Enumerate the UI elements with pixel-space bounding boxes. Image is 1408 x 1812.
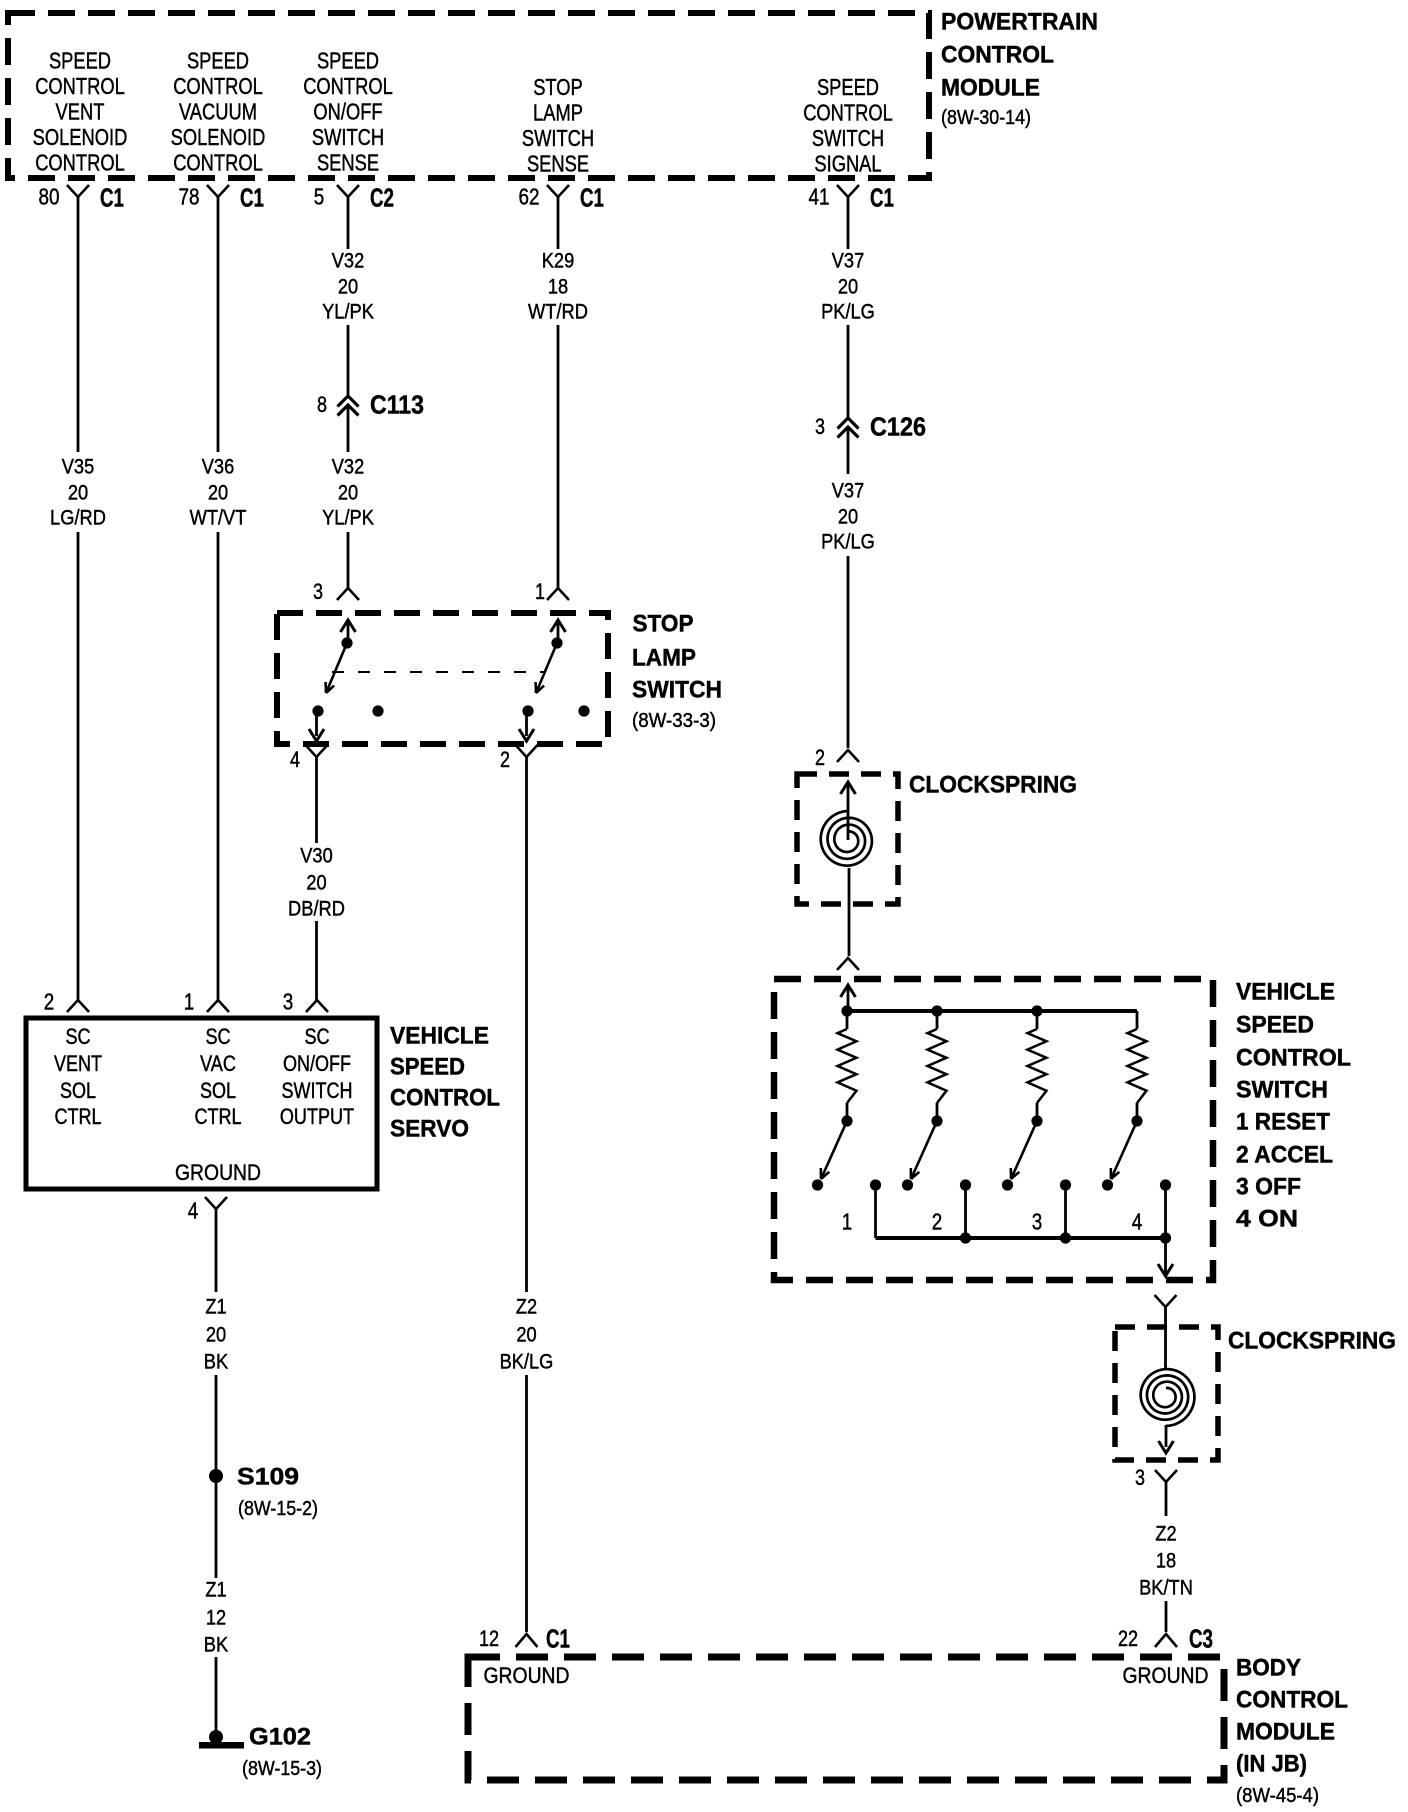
svg-text:STOP: STOP	[633, 611, 694, 638]
svg-text:SPEED: SPEED	[390, 1054, 465, 1081]
svg-text:SPEED: SPEED	[1236, 1012, 1314, 1039]
svg-text:LAMP: LAMP	[632, 645, 696, 672]
svg-text:LG/RD: LG/RD	[50, 506, 106, 530]
svg-text:(8W-33-3): (8W-33-3)	[632, 710, 716, 732]
svg-text:41: 41	[809, 183, 830, 209]
svg-text:3: 3	[1032, 1208, 1043, 1234]
svg-text:18: 18	[1156, 1549, 1176, 1573]
svg-text:GROUND: GROUND	[175, 1160, 261, 1185]
svg-text:8: 8	[317, 392, 327, 417]
svg-text:3: 3	[283, 988, 294, 1014]
svg-text:GROUND: GROUND	[484, 1663, 570, 1688]
svg-text:C1: C1	[870, 182, 894, 212]
svg-text:SWITCH: SWITCH	[812, 125, 884, 151]
svg-text:V37: V37	[832, 479, 865, 503]
svg-text:VEHICLE: VEHICLE	[390, 1023, 489, 1050]
svg-text:SC: SC	[65, 1024, 90, 1049]
svg-text:12: 12	[206, 1606, 226, 1630]
svg-text:(8W-45-4): (8W-45-4)	[1236, 1785, 1319, 1807]
svg-text:1: 1	[842, 1208, 853, 1234]
svg-text:3: 3	[1135, 1465, 1145, 1490]
svg-text:CONTROL: CONTROL	[173, 73, 263, 99]
svg-text:CONTROL: CONTROL	[1236, 1687, 1348, 1714]
svg-text:VENT: VENT	[56, 99, 105, 125]
svg-text:V36: V36	[202, 455, 235, 479]
svg-text:(IN JB): (IN JB)	[1236, 1751, 1307, 1778]
svg-text:CONTROL: CONTROL	[303, 73, 393, 99]
svg-text:ON/OFF: ON/OFF	[283, 1051, 351, 1076]
svg-text:CONTROL: CONTROL	[173, 150, 263, 176]
svg-text:78: 78	[179, 183, 200, 209]
svg-text:CONTROL: CONTROL	[803, 100, 893, 126]
svg-text:20: 20	[306, 871, 326, 895]
svg-text:4: 4	[188, 1197, 199, 1223]
svg-text:WT/RD: WT/RD	[528, 300, 588, 324]
svg-text:SENSE: SENSE	[527, 151, 589, 177]
svg-text:20: 20	[68, 481, 88, 505]
svg-text:SPEED: SPEED	[187, 48, 249, 74]
svg-text:20: 20	[338, 481, 358, 505]
svg-text:4 ON: 4 ON	[1236, 1206, 1298, 1233]
svg-text:SOLENOID: SOLENOID	[33, 124, 128, 150]
svg-text:SERVO: SERVO	[390, 1116, 469, 1143]
svg-text:POWERTRAIN: POWERTRAIN	[941, 9, 1098, 36]
svg-text:C113: C113	[370, 389, 424, 419]
svg-text:VENT: VENT	[54, 1051, 102, 1076]
svg-text:C3: C3	[1189, 1623, 1213, 1653]
svg-text:CONTROL: CONTROL	[35, 150, 125, 176]
svg-text:CONTROL: CONTROL	[941, 42, 1054, 69]
svg-text:3: 3	[815, 414, 825, 439]
svg-text:DB/RD: DB/RD	[288, 897, 345, 921]
svg-text:MODULE: MODULE	[941, 75, 1040, 102]
svg-text:VACUUM: VACUUM	[179, 99, 257, 125]
svg-text:(8W-15-2): (8W-15-2)	[238, 1498, 318, 1520]
svg-text:BK: BK	[204, 1350, 229, 1374]
svg-text:BK/TN: BK/TN	[1139, 1576, 1193, 1600]
svg-text:20: 20	[208, 481, 228, 505]
svg-text:(8W-30-14): (8W-30-14)	[941, 107, 1031, 129]
svg-text:C1: C1	[546, 1623, 570, 1653]
svg-text:2: 2	[815, 745, 825, 770]
svg-text:C1: C1	[240, 182, 264, 212]
svg-text:SWITCH: SWITCH	[522, 125, 594, 151]
svg-text:2 ACCEL: 2 ACCEL	[1236, 1142, 1333, 1169]
svg-text:Z2: Z2	[516, 1295, 537, 1319]
svg-text:C1: C1	[100, 182, 124, 212]
svg-text:20: 20	[338, 275, 358, 299]
svg-text:3 OFF: 3 OFF	[1236, 1174, 1301, 1201]
svg-text:CLOCKSPRING: CLOCKSPRING	[1228, 1328, 1396, 1355]
svg-text:SPEED: SPEED	[49, 48, 111, 74]
svg-text:GROUND: GROUND	[1123, 1663, 1209, 1688]
svg-text:BK/LG: BK/LG	[500, 1350, 554, 1374]
svg-text:2: 2	[500, 747, 510, 772]
svg-text:V35: V35	[62, 455, 95, 479]
svg-text:5: 5	[314, 183, 325, 209]
svg-text:STOP: STOP	[533, 74, 583, 100]
svg-text:PK/LG: PK/LG	[821, 300, 875, 324]
svg-text:20: 20	[838, 275, 858, 299]
svg-text:G102: G102	[249, 1724, 311, 1751]
svg-text:S109: S109	[237, 1464, 299, 1491]
svg-text:SWITCH: SWITCH	[281, 1078, 352, 1103]
svg-text:SWITCH: SWITCH	[1236, 1077, 1328, 1104]
svg-text:YL/PK: YL/PK	[322, 300, 374, 324]
svg-text:C126: C126	[870, 411, 926, 441]
svg-text:VAC: VAC	[200, 1051, 236, 1076]
svg-text:4: 4	[290, 747, 300, 772]
svg-text:CONTROL: CONTROL	[390, 1085, 500, 1112]
svg-text:C1: C1	[580, 182, 604, 212]
svg-text:CLOCKSPRING: CLOCKSPRING	[909, 772, 1077, 799]
svg-text:SC: SC	[205, 1024, 230, 1049]
svg-text:MODULE: MODULE	[1236, 1719, 1335, 1746]
svg-text:SWITCH: SWITCH	[632, 677, 722, 704]
svg-text:PK/LG: PK/LG	[821, 530, 875, 554]
svg-text:WT/VT: WT/VT	[190, 506, 247, 530]
svg-text:SENSE: SENSE	[317, 150, 379, 176]
svg-text:ON/OFF: ON/OFF	[313, 99, 382, 125]
svg-text:CTRL: CTRL	[54, 1104, 101, 1129]
svg-text:CONTROL: CONTROL	[1236, 1045, 1351, 1072]
svg-text:12: 12	[479, 1626, 499, 1651]
svg-text:(8W-15-3): (8W-15-3)	[242, 1758, 322, 1780]
svg-text:20: 20	[206, 1323, 226, 1347]
svg-text:V37: V37	[832, 249, 865, 273]
svg-text:CTRL: CTRL	[194, 1104, 241, 1129]
svg-text:4: 4	[1132, 1208, 1143, 1234]
svg-text:62: 62	[519, 183, 540, 209]
svg-text:OUTPUT: OUTPUT	[280, 1104, 354, 1129]
svg-text:LAMP: LAMP	[533, 100, 583, 126]
svg-text:20: 20	[838, 505, 858, 529]
svg-text:V30: V30	[300, 844, 333, 868]
svg-text:1 RESET: 1 RESET	[1236, 1109, 1330, 1136]
svg-text:3: 3	[313, 579, 323, 604]
svg-text:SOLENOID: SOLENOID	[171, 124, 266, 150]
svg-text:SOL: SOL	[200, 1078, 236, 1103]
svg-text:CONTROL: CONTROL	[35, 73, 125, 99]
svg-text:Z1: Z1	[205, 1295, 226, 1319]
svg-text:2: 2	[44, 988, 55, 1014]
svg-text:SPEED: SPEED	[317, 48, 379, 74]
svg-text:SPEED: SPEED	[817, 74, 879, 100]
svg-text:22: 22	[1118, 1626, 1138, 1651]
svg-text:1: 1	[535, 579, 545, 604]
svg-text:SWITCH: SWITCH	[312, 124, 384, 150]
svg-text:80: 80	[39, 183, 60, 209]
svg-text:K29: K29	[542, 249, 575, 273]
svg-text:V32: V32	[332, 249, 365, 273]
svg-text:20: 20	[516, 1323, 536, 1347]
svg-text:18: 18	[548, 275, 568, 299]
svg-text:C2: C2	[370, 182, 394, 212]
svg-text:2: 2	[932, 1208, 943, 1234]
svg-text:1: 1	[184, 988, 195, 1014]
svg-text:BODY: BODY	[1236, 1655, 1301, 1682]
svg-text:BK: BK	[204, 1633, 229, 1657]
svg-text:Z1: Z1	[205, 1578, 226, 1602]
svg-text:Z2: Z2	[1155, 1522, 1176, 1546]
svg-text:SIGNAL: SIGNAL	[814, 151, 881, 177]
svg-text:V32: V32	[332, 455, 365, 479]
svg-text:YL/PK: YL/PK	[322, 506, 374, 530]
svg-text:SC: SC	[304, 1024, 329, 1049]
svg-text:SOL: SOL	[60, 1078, 96, 1103]
svg-text:VEHICLE: VEHICLE	[1236, 979, 1335, 1006]
